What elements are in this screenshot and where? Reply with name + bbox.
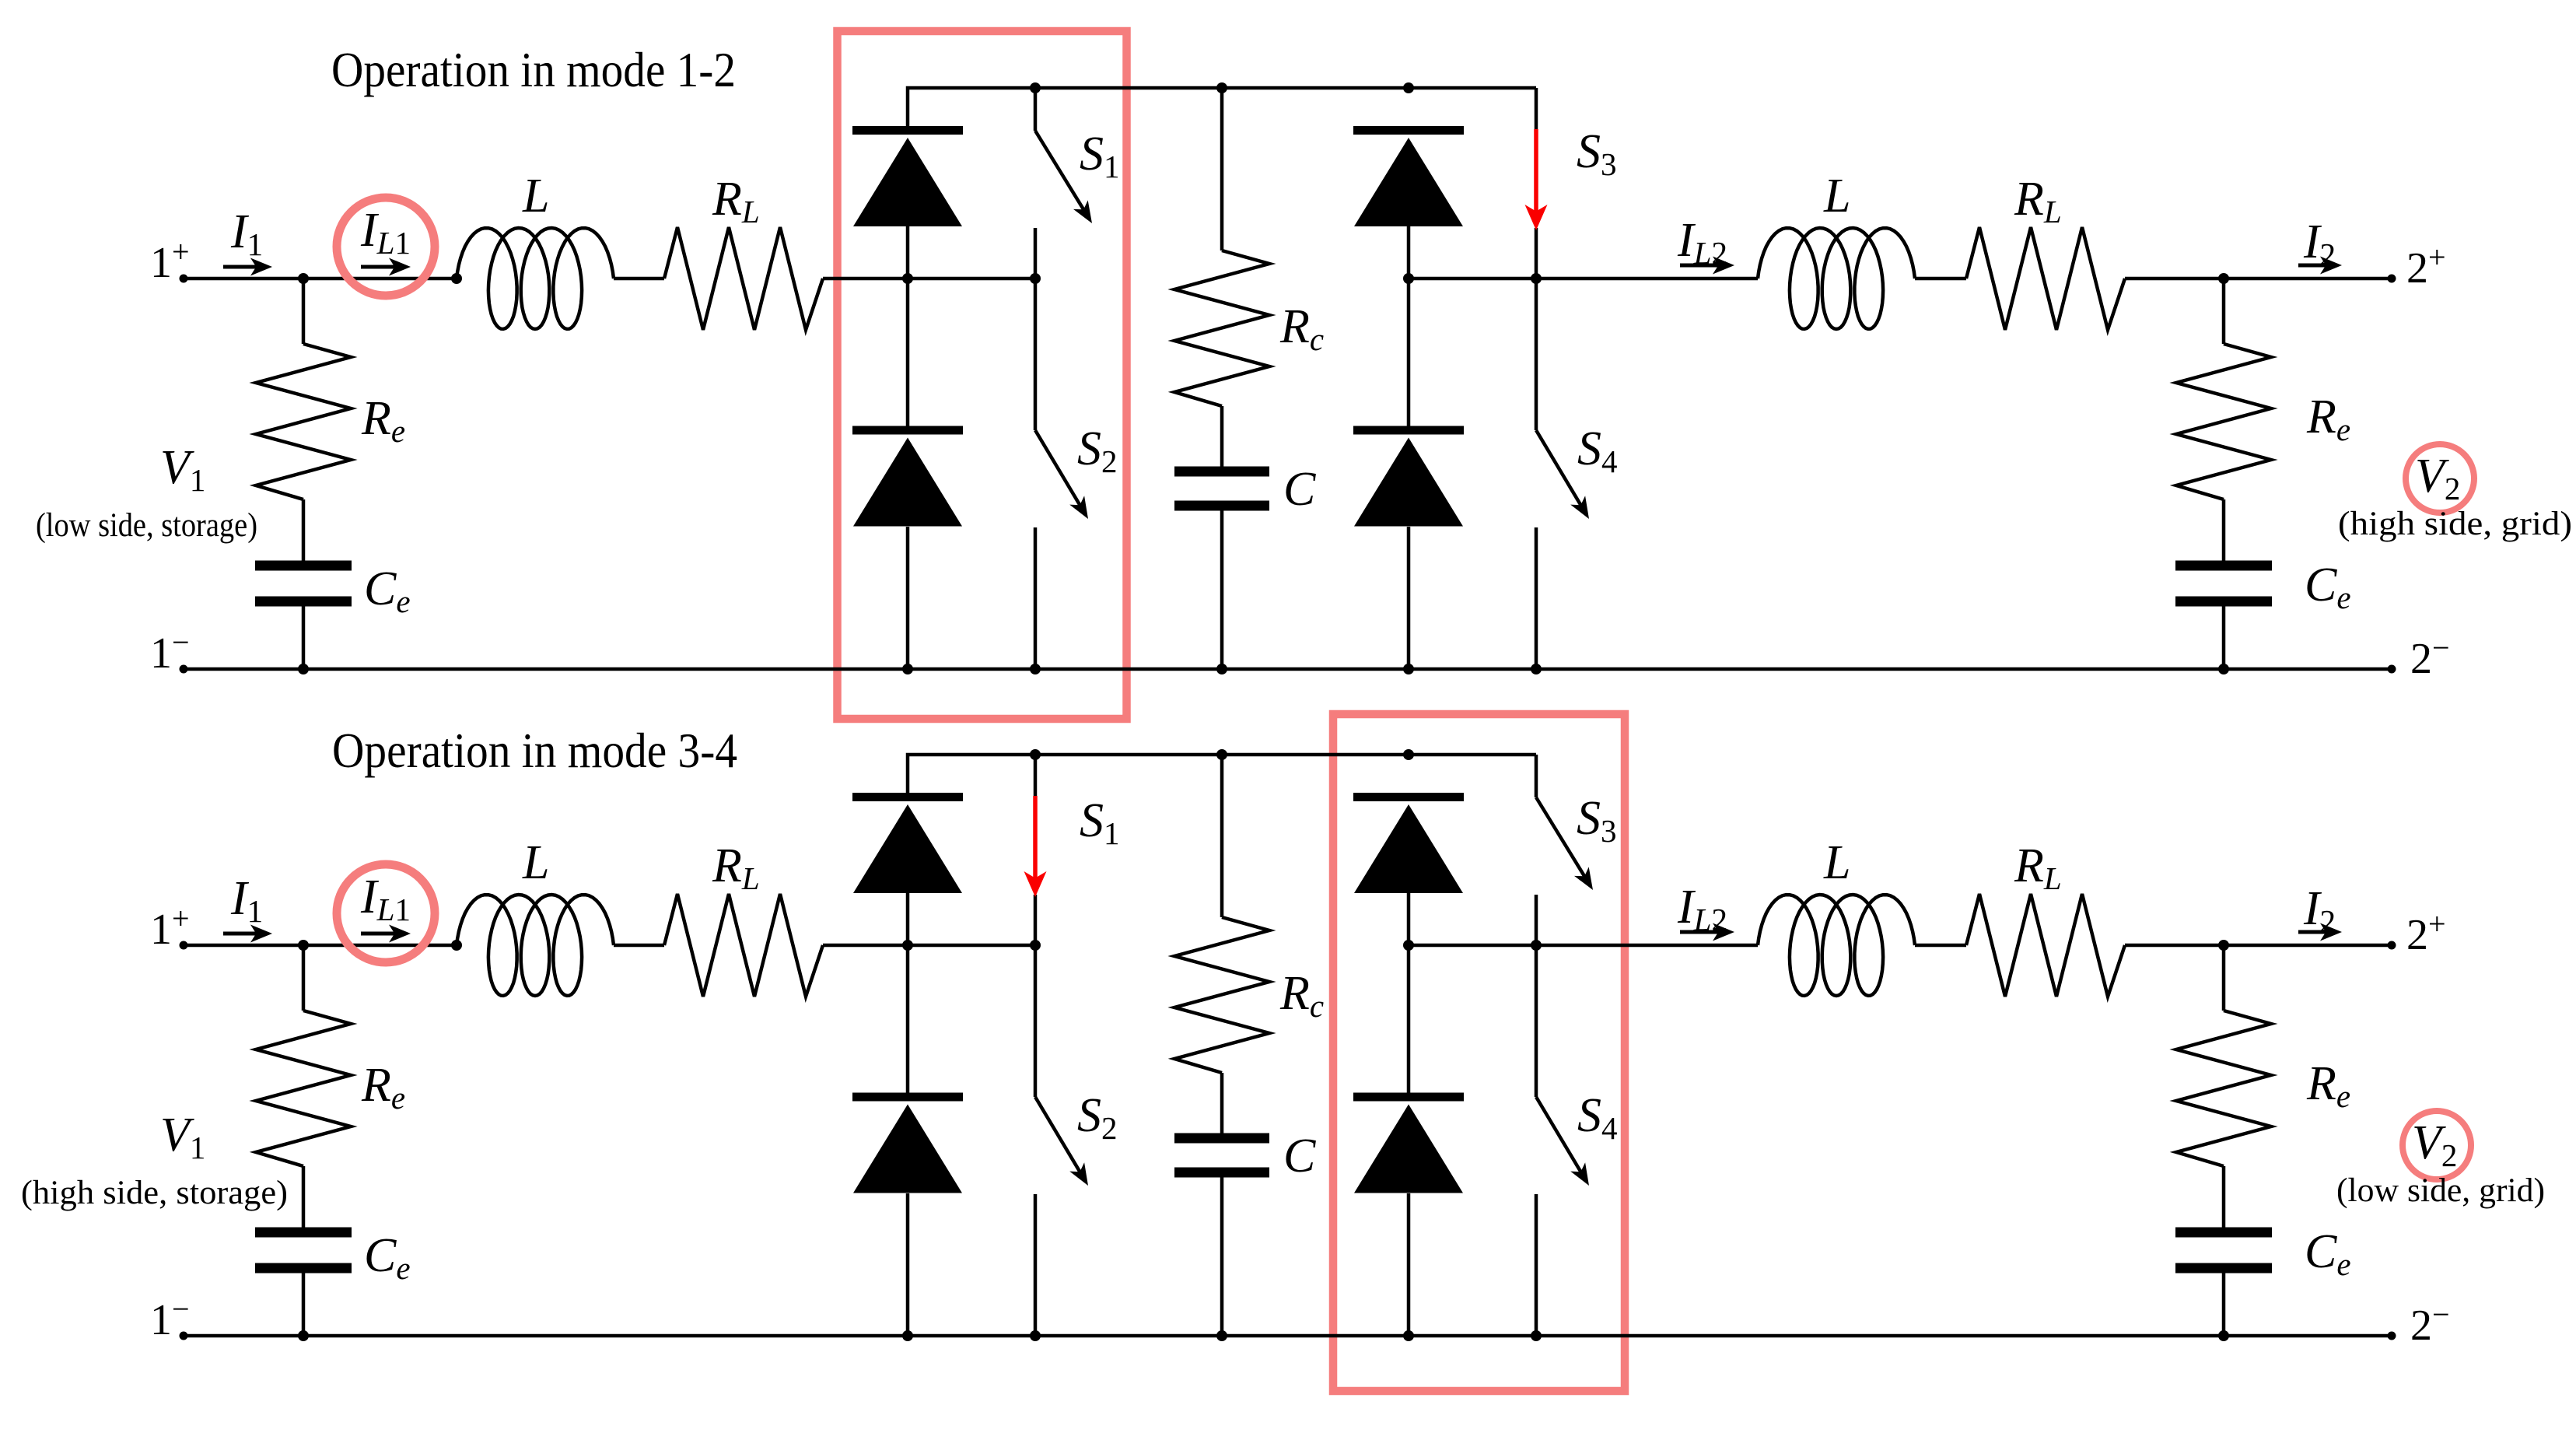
diode D3 (top) bbox=[1353, 126, 1464, 135]
wire C to bottom bus (bottom) bbox=[1220, 1177, 1224, 1337]
wire D3 to mid (bottom) bbox=[1407, 893, 1411, 945]
junction dot D4 bottom (top) bbox=[1403, 664, 1414, 674]
switch S4 (open) (bottom) bbox=[1535, 945, 1538, 1097]
junction dot node Re (right) (top) bbox=[2218, 273, 2229, 284]
switch S1 (closed, red conduction arrow) (bottom) bbox=[1034, 755, 1038, 796]
switch S3 (open) (bottom) bbox=[1535, 755, 1538, 797]
diode D4 (bottom) bbox=[1353, 1093, 1464, 1102]
terminal 1- dot (top) bbox=[180, 665, 188, 674]
top bus wire (top) bbox=[908, 88, 1536, 126]
resistor Re (right) (top) bbox=[2176, 344, 2271, 499]
junction dot Rc top (bottom) bbox=[1216, 749, 1227, 760]
wire mid to D2 (top) bbox=[906, 279, 910, 426]
junction dot S1 top (bottom) bbox=[1030, 749, 1041, 760]
current arrow IL1 (bottom) bbox=[361, 932, 395, 936]
wire C to bottom bus (top) bbox=[1220, 510, 1224, 670]
diode D2 (bottom) bbox=[852, 1093, 963, 1102]
wire inductor to RL (top) bbox=[614, 277, 664, 281]
wire node to Re (bottom) bbox=[302, 945, 306, 1011]
wire 1+ terminal to inductor (bottom) bbox=[184, 944, 457, 948]
resistor RL (right) (bottom) bbox=[1966, 894, 2125, 997]
current arrow IL2 (top) bbox=[1680, 264, 1719, 268]
svg-text:L: L bbox=[1823, 170, 1850, 222]
terminal 2- dot (top) bbox=[2388, 665, 2396, 674]
wire Re to Ce (right) (bottom) bbox=[2222, 1166, 2226, 1228]
wire node to Re (right) (top) bbox=[2222, 279, 2226, 344]
wire Re to Ce (right) (top) bbox=[2222, 499, 2226, 562]
junction dot D3 top (bottom) bbox=[1403, 749, 1414, 760]
wire bridge to inductor (right) (top) bbox=[1409, 277, 1758, 281]
junction dot Ce bottom (right) (bottom) bbox=[2218, 1330, 2229, 1341]
resistor Rc (top) bbox=[1174, 251, 1269, 406]
wire D3 to mid (top) bbox=[1407, 226, 1411, 279]
resistor Rc (bottom) bbox=[1174, 917, 1269, 1073]
bottom bus wire (top) bbox=[184, 667, 2392, 671]
wire bridge to inductor (right) (bottom) bbox=[1409, 944, 1758, 948]
wire Rc to C (top) bbox=[1220, 406, 1224, 468]
current arrow I1 (bottom) bbox=[223, 932, 257, 936]
terminal 1+ dot (top) bbox=[180, 275, 188, 283]
wire mid to D2 (bottom) bbox=[906, 945, 910, 1093]
wire Ce to bottom bus (bottom) bbox=[302, 1273, 306, 1337]
wire D4 to bottom bus (top) bbox=[1407, 527, 1411, 669]
current arrow I1 (top) bbox=[223, 265, 257, 269]
junction dot Ce/bottom bus (bottom) bbox=[298, 1330, 309, 1341]
svg-text:C: C bbox=[1283, 1130, 1316, 1182]
svg-text:(high side, storage): (high side, storage) bbox=[21, 1175, 288, 1211]
current arrow IL2 (bottom) bbox=[1680, 930, 1719, 934]
junction dot at inductor input (top) bbox=[451, 273, 462, 284]
svg-text:Operation in mode 3-4: Operation in mode 3-4 bbox=[332, 723, 737, 778]
highlight rectangle around leg S3/S4 (bottom) bbox=[1333, 714, 1625, 1391]
resistor RL (left) (bottom) bbox=[664, 894, 823, 997]
junction dot S4 bottom (top) bbox=[1531, 664, 1542, 674]
wire Ce to bottom bus (top) bbox=[302, 606, 306, 670]
resistor Re (left) (bottom) bbox=[256, 1011, 351, 1166]
junction dot C bottom (bottom) bbox=[1216, 1330, 1227, 1341]
current arrow IL1 (top) bbox=[361, 265, 395, 269]
terminal 2+ dot (bottom) bbox=[2388, 941, 2396, 950]
junction dot at inductor input (bottom) bbox=[451, 940, 462, 951]
highlight rectangle around leg S1/S2 (top) bbox=[838, 31, 1127, 719]
terminal 2- dot (bottom) bbox=[2388, 1332, 2396, 1340]
junction dot S1 contact on mid wire (bottom) bbox=[1030, 940, 1041, 951]
junction dot S4 bottom (bottom) bbox=[1531, 1330, 1542, 1341]
switch S3 (closed, red conduction arrow) (top) bbox=[1535, 88, 1538, 129]
junction dot D1/D2 column on mid wire (top) bbox=[902, 273, 913, 284]
junction dot D1/D2 column on mid wire (bottom) bbox=[902, 940, 913, 951]
wire D2 to bottom bus (bottom) bbox=[906, 1193, 910, 1336]
junction dot Ce bottom (right) (top) bbox=[2218, 664, 2229, 674]
wire inductor to RL (bottom) bbox=[614, 944, 664, 948]
inductor L (left) (bottom) bbox=[457, 895, 614, 996]
capacitor C (bottom) bbox=[1174, 1133, 1269, 1144]
junction dot S2 bottom (bottom) bbox=[1030, 1330, 1041, 1341]
red highlight circle around IL1 (bottom) bbox=[337, 864, 435, 962]
junction dot S2 bottom (top) bbox=[1030, 664, 1041, 674]
junction dot D4 bottom (bottom) bbox=[1403, 1330, 1414, 1341]
svg-text:(high side, grid): (high side, grid) bbox=[2338, 506, 2572, 542]
red highlight circle around IL1 (top) bbox=[337, 198, 435, 296]
svg-text:(low side, grid): (low side, grid) bbox=[2336, 1172, 2545, 1209]
node junction dot (1+/Re) (top) bbox=[298, 273, 309, 284]
wire Rc to C (bottom) bbox=[1220, 1073, 1224, 1134]
diode D1 (bottom) bbox=[852, 793, 963, 801]
junction dot S1 contact on mid wire (top) bbox=[1030, 273, 1041, 284]
svg-text:L: L bbox=[522, 836, 549, 889]
terminal 1+ dot (bottom) bbox=[180, 941, 188, 950]
diode D3 (bottom) bbox=[1353, 793, 1464, 801]
wire RL to bridge (bottom) bbox=[823, 944, 1035, 948]
wire D4 to bottom bus (bottom) bbox=[1407, 1193, 1411, 1336]
top bus wire (bottom) bbox=[908, 755, 1536, 793]
capacitor C (top) bbox=[1174, 467, 1269, 477]
capacitor Ce (right) (bottom) bbox=[2175, 1228, 2272, 1238]
wire top bus to Rc (top) bbox=[1220, 88, 1224, 251]
wire top bus to Rc (bottom) bbox=[1220, 755, 1224, 917]
resistor Re (left) (top) bbox=[256, 344, 351, 499]
terminal 1- dot (bottom) bbox=[180, 1332, 188, 1340]
junction dot D3 mid (top) bbox=[1403, 273, 1414, 284]
wire RL to 2+ terminal (bottom) bbox=[2125, 944, 2392, 948]
inductor L (right) (bottom) bbox=[1758, 895, 1915, 996]
junction dot D2 bottom (top) bbox=[902, 664, 913, 674]
junction dot D3 top (top) bbox=[1403, 82, 1414, 93]
junction dot D2 bottom (bottom) bbox=[902, 1330, 913, 1341]
diode D2 (top) bbox=[852, 426, 963, 435]
svg-text:(low side, storage): (low side, storage) bbox=[36, 507, 257, 544]
wire node to Re (top) bbox=[302, 279, 306, 344]
diode D4 (top) bbox=[1353, 426, 1464, 435]
wire node to Re (right) (bottom) bbox=[2222, 945, 2226, 1011]
wire Ce to bottom bus (right) (top) bbox=[2222, 606, 2226, 670]
resistor Re (right) (bottom) bbox=[2176, 1011, 2271, 1166]
inductor L (right) (top) bbox=[1758, 228, 1915, 329]
switch S1 (open) (top) bbox=[1034, 88, 1038, 131]
wire D1 to mid (top) bbox=[906, 226, 910, 279]
wire RL to 2+ terminal (top) bbox=[2125, 277, 2392, 281]
switch S4 (open) (top) bbox=[1535, 279, 1538, 430]
junction dot S3 mid (top) bbox=[1531, 273, 1542, 284]
bottom bus wire (bottom) bbox=[184, 1334, 2392, 1338]
wire Re to Ce (top) bbox=[302, 499, 306, 562]
wire 1+ terminal to inductor (top) bbox=[184, 277, 457, 281]
wire mid to D4 (top) bbox=[1407, 279, 1411, 426]
diode D1 (top) bbox=[852, 126, 963, 135]
inductor L (left) (top) bbox=[457, 228, 614, 329]
wire inductor to RL (right) (bottom) bbox=[1915, 944, 1966, 948]
resistor RL (right) (top) bbox=[1966, 227, 2125, 330]
wire Re to Ce (bottom) bbox=[302, 1166, 306, 1228]
capacitor Ce (left) (top) bbox=[255, 561, 352, 571]
highlight circle around V2 (top) bbox=[2406, 444, 2474, 513]
resistor RL (left) (top) bbox=[664, 227, 823, 330]
junction dot C bottom (top) bbox=[1216, 664, 1227, 674]
svg-text:L: L bbox=[522, 170, 549, 222]
junction dot node Re (right) (bottom) bbox=[2218, 940, 2229, 951]
capacitor Ce (right) (top) bbox=[2175, 561, 2272, 571]
current arrow I2 (top) bbox=[2298, 264, 2326, 268]
switch S2 (open) (top) bbox=[1034, 279, 1038, 430]
wire RL to bridge (top) bbox=[823, 277, 1035, 281]
svg-text:C: C bbox=[1283, 463, 1316, 516]
svg-text:Operation in mode 1-2: Operation in mode 1-2 bbox=[331, 42, 736, 97]
node junction dot (1+/Re) (bottom) bbox=[298, 940, 309, 951]
current arrow I2 (bottom) bbox=[2298, 930, 2326, 934]
wire mid to D4 (bottom) bbox=[1407, 945, 1411, 1093]
junction dot S1 top (top) bbox=[1030, 82, 1041, 93]
wire D2 to bottom bus (top) bbox=[906, 527, 910, 669]
highlight circle around V2 (bottom) bbox=[2403, 1111, 2471, 1179]
wire Ce to bottom bus (right) (bottom) bbox=[2222, 1273, 2226, 1337]
junction dot D3 mid (bottom) bbox=[1403, 940, 1414, 951]
switch S2 (open) (bottom) bbox=[1034, 945, 1038, 1097]
junction dot Ce/bottom bus (top) bbox=[298, 664, 309, 674]
capacitor Ce (left) (bottom) bbox=[255, 1228, 352, 1238]
svg-text:L: L bbox=[1823, 836, 1850, 889]
wire inductor to RL (right) (top) bbox=[1915, 277, 1966, 281]
wire D1 to mid (bottom) bbox=[906, 893, 910, 945]
terminal 2+ dot (top) bbox=[2388, 275, 2396, 283]
junction dot S3 mid (bottom) bbox=[1531, 940, 1542, 951]
junction dot Rc top (top) bbox=[1216, 82, 1227, 93]
